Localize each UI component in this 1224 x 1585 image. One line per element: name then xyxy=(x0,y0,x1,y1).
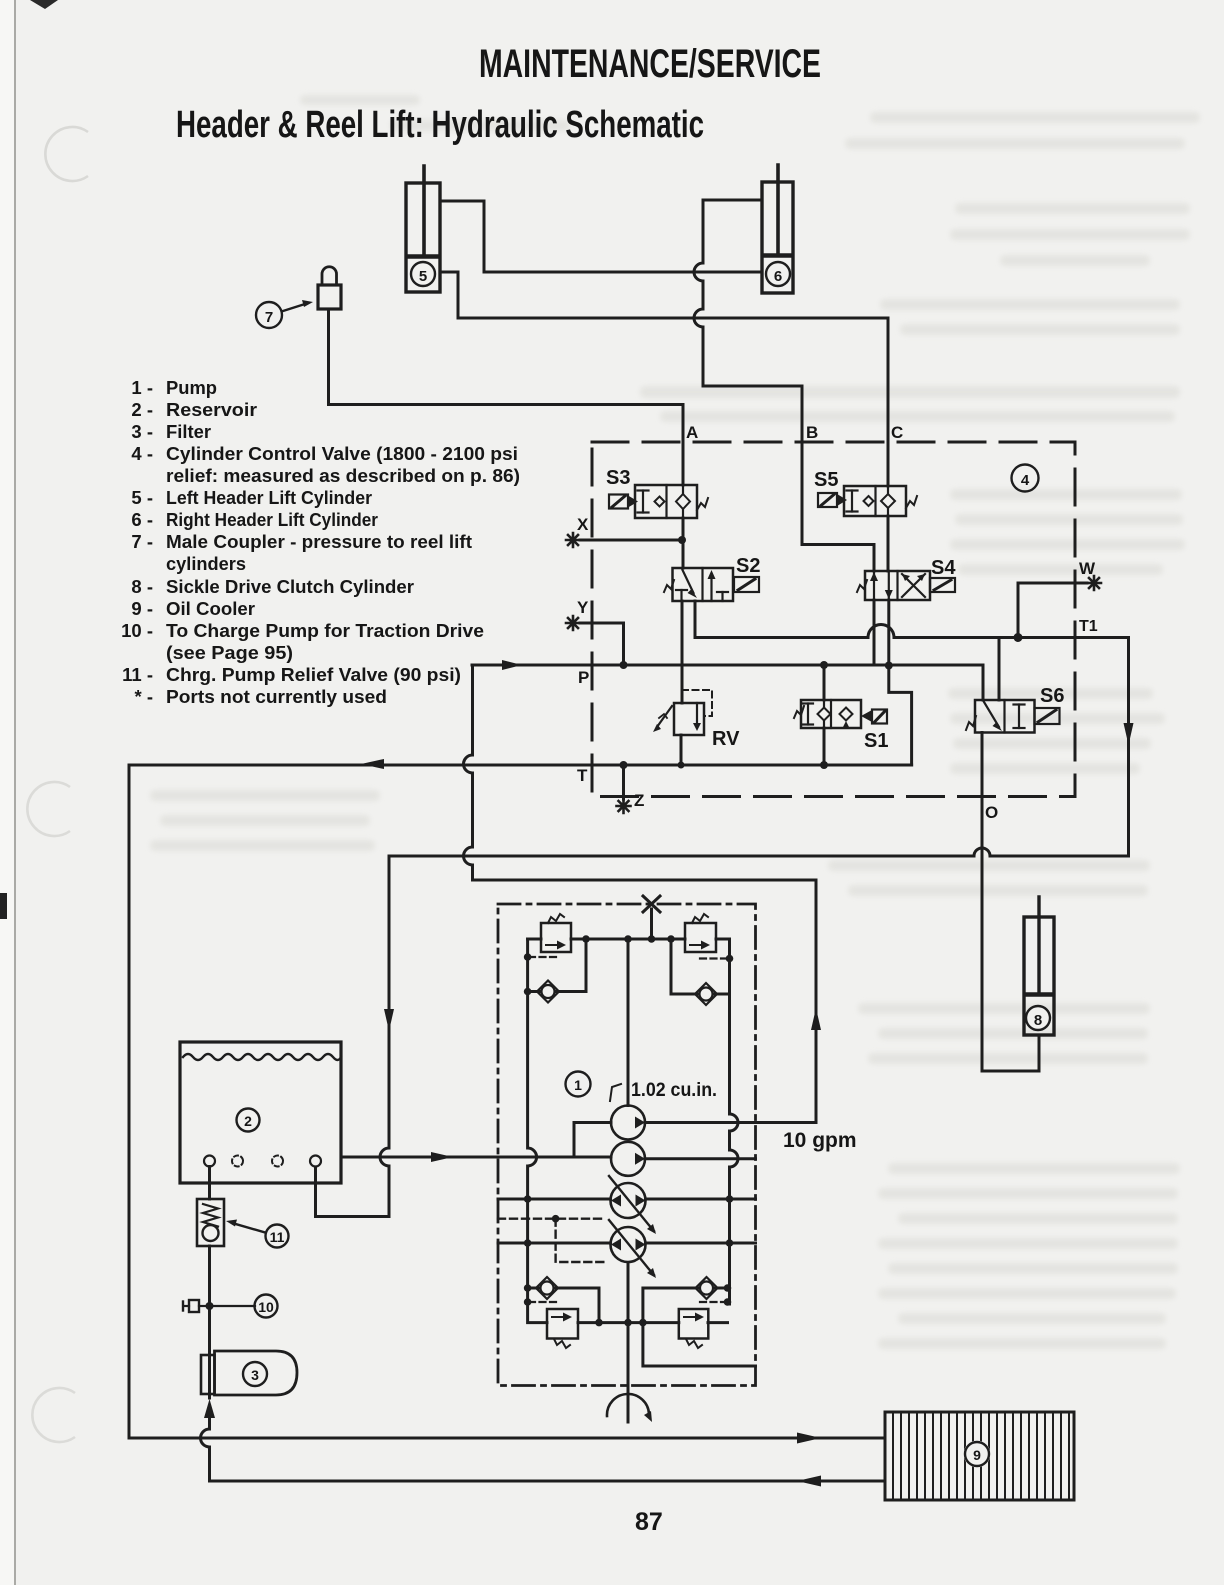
svg-text:7: 7 xyxy=(265,309,273,326)
pump label 1 and displacement xyxy=(566,1072,718,1102)
bottom relief row xyxy=(578,1321,728,1324)
svg-text:MAINTENANCE/SERVICE: MAINTENANCE/SERVICE xyxy=(479,42,821,86)
svg-text:Header & Reel Lift: Hydraulic: Header & Reel Lift: Hydraulic Schematic xyxy=(176,104,704,146)
wire cyl5 top port to cyl6 bottom port xyxy=(440,201,762,272)
svg-text:11 -: 11 - xyxy=(122,664,153,685)
wire C through S5 to S4 xyxy=(887,442,890,571)
wire P corner into S6 xyxy=(982,665,985,700)
pump circle 3 variable xyxy=(609,1176,656,1234)
right bus in pump box xyxy=(730,939,739,1304)
filter inlet arrow xyxy=(204,1399,215,1418)
svg-text:2 -: 2 - xyxy=(131,399,153,420)
svg-text:C: C xyxy=(891,423,903,442)
svg-text:A: A xyxy=(686,423,698,442)
svg-text:Reservoir: Reservoir xyxy=(166,399,257,420)
dashed control lines to variable pumps xyxy=(498,1219,606,1262)
subtitle xyxy=(176,104,704,146)
wire P to S1 xyxy=(823,665,826,700)
wire S4 left bottom to P xyxy=(873,600,876,665)
svg-text:1: 1 xyxy=(574,1077,582,1093)
page number 87 xyxy=(635,1508,663,1536)
relief valve square bottom-right xyxy=(679,1309,709,1348)
wire RV bottom to T row xyxy=(680,735,683,765)
pump shaft bottom and rotation arc xyxy=(607,1263,652,1422)
wire S4 right bottom to T row jog xyxy=(889,600,912,765)
svg-text:W: W xyxy=(1079,559,1096,578)
wire X to A junction xyxy=(580,539,683,542)
svg-text:S6: S6 xyxy=(1040,685,1064,707)
wire T1 branch to S6 xyxy=(998,638,1001,701)
arrow down on return wire xyxy=(384,1009,394,1031)
port W star xyxy=(1079,559,1101,590)
svg-text:Chrg. Pump Relief Valve (90 ps: Chrg. Pump Relief Valve (90 psi) xyxy=(166,664,461,685)
svg-text:T1: T1 xyxy=(1079,618,1098,635)
pump output wire up and over to P feed xyxy=(464,665,817,1123)
wire W to T1 line xyxy=(1018,583,1087,638)
port Y star xyxy=(566,598,589,630)
svg-text:S3: S3 xyxy=(606,467,630,489)
svg-text:4 -: 4 - xyxy=(131,443,153,464)
plugged port X on pump box top xyxy=(643,896,660,939)
wire Y to P line xyxy=(580,623,624,665)
svg-text:9 -: 9 - xyxy=(131,598,153,619)
wire cylinder 8 bottom port xyxy=(1038,1035,1041,1071)
svg-text:Pump: Pump xyxy=(166,377,217,398)
port Z star xyxy=(617,791,645,813)
reservoir 2 xyxy=(180,1042,341,1183)
svg-text:Z: Z xyxy=(634,791,644,810)
wire CRV to junction 10 and filter xyxy=(208,1246,211,1398)
title xyxy=(479,42,821,86)
solenoid valve S6 xyxy=(966,685,1064,733)
drain wire to right border xyxy=(643,1323,756,1366)
relief valve square top-left xyxy=(541,914,571,952)
wire S1 to T row xyxy=(823,728,826,765)
svg-text:X: X xyxy=(577,515,589,534)
solenoid valve S5 xyxy=(814,469,917,516)
svg-text:2: 2 xyxy=(244,1113,252,1129)
oil cooler 9 xyxy=(885,1412,1074,1500)
relief valve square bottom-left xyxy=(547,1309,578,1348)
pump P3 lines xyxy=(498,1198,756,1201)
T row arrow left xyxy=(361,759,384,769)
svg-text:Y: Y xyxy=(577,598,589,617)
svg-text:8 -: 8 - xyxy=(131,576,153,597)
svg-text:8: 8 xyxy=(1034,1012,1042,1029)
svg-text:S5: S5 xyxy=(814,469,838,491)
port X star xyxy=(566,515,589,547)
wire S6 bottom to O and cylinder 8 xyxy=(982,733,1039,1072)
svg-text:Cylinder Control Valve (1800 -: Cylinder Control Valve (1800 - 2100 psi xyxy=(166,443,518,464)
wire T1 corner down right side to 856 line xyxy=(389,638,1129,857)
left bus in pump box xyxy=(528,939,547,1323)
svg-text:3: 3 xyxy=(251,1367,259,1383)
pump dash-dot box xyxy=(498,904,756,1386)
wire B jog into S4 xyxy=(802,442,874,571)
arrow down on right loop xyxy=(1124,723,1134,745)
charge pump relief valve 11 xyxy=(197,1199,289,1248)
svg-text:S1: S1 xyxy=(864,730,888,752)
svg-text:Oil Cooler: Oil Cooler xyxy=(166,598,255,619)
svg-text:1 -: 1 - xyxy=(131,377,153,398)
top-right check valve xyxy=(671,939,730,1005)
male coupler 7 xyxy=(256,267,341,328)
pump circle 4 variable xyxy=(609,1220,656,1278)
bottom-right check valve xyxy=(643,1277,728,1323)
wire A through S3 to S2 xyxy=(682,518,685,568)
svg-text:Male Coupler - pressure to ree: Male Coupler - pressure to reel lift xyxy=(166,531,472,552)
return wire down to reservoir port 4 xyxy=(316,856,390,1217)
wire S2 to RV xyxy=(681,601,684,703)
wire cyl5 bottom port to port C xyxy=(440,272,888,442)
pump P2 output to border xyxy=(645,1157,756,1160)
suction arrow xyxy=(431,1152,453,1162)
bottom-left check valve xyxy=(528,1277,599,1323)
relief valve square top-right xyxy=(685,914,716,952)
cooler return arrow xyxy=(797,1476,821,1487)
top relief row xyxy=(528,938,730,941)
svg-text:87: 87 xyxy=(635,1508,663,1536)
pump circle 2 xyxy=(611,1142,645,1176)
arrow up on pump output xyxy=(811,1008,821,1030)
svg-text:11: 11 xyxy=(270,1229,285,1245)
svg-text:(see Page 95): (see Page 95) xyxy=(166,642,293,663)
legend list xyxy=(121,377,520,707)
svg-text:relief: measured as described: relief: measured as described on p. 86) xyxy=(166,465,520,486)
wire filter inlet from cooler return xyxy=(201,1417,886,1481)
svg-text:B: B xyxy=(806,423,818,442)
pump inlet wire from suction to circle1 xyxy=(574,1123,611,1158)
svg-text:10 gpm: 10 gpm xyxy=(783,1129,857,1152)
svg-text:S4: S4 xyxy=(931,557,956,579)
wire coupler to port A xyxy=(329,309,684,485)
svg-text:3 -: 3 - xyxy=(131,421,153,442)
top-left check valve xyxy=(528,939,586,1003)
T row line xyxy=(129,765,912,1438)
cylinder control valve dashed box 4 xyxy=(592,442,1075,797)
svg-text:1.02 cu.in.: 1.02 cu.in. xyxy=(631,1080,717,1101)
svg-text:Sickle Drive Clutch Cylinder: Sickle Drive Clutch Cylinder xyxy=(166,576,414,597)
left header lift cylinder 5 xyxy=(406,166,440,292)
relief valve RV xyxy=(653,690,740,750)
suction line from reservoir xyxy=(341,1156,611,1159)
solenoid valve S3 xyxy=(606,467,708,518)
svg-text:10 -: 10 - xyxy=(121,620,153,641)
svg-text:RV: RV xyxy=(712,728,740,750)
wire reservoir port1 down to CRV 11 xyxy=(208,1167,211,1200)
svg-text:5: 5 xyxy=(419,268,427,285)
svg-text:7 -: 7 - xyxy=(131,531,153,552)
svg-text:* -: * - xyxy=(135,686,154,707)
dashed pilot rows bottom xyxy=(529,1301,557,1303)
svg-text:Left Header Lift Cylinder: Left Header Lift Cylinder xyxy=(166,487,372,508)
right header lift cylinder 6 xyxy=(762,165,793,293)
svg-text:4: 4 xyxy=(1021,472,1030,489)
P line xyxy=(472,664,983,667)
svg-text:6 -: 6 - xyxy=(131,509,153,530)
svg-text:Filter: Filter xyxy=(166,421,211,442)
pump shaft wire top xyxy=(627,939,630,1106)
solenoid valve S1 xyxy=(794,700,888,752)
svg-text:O: O xyxy=(985,803,998,822)
svg-text:To Charge Pump for Traction Dr: To Charge Pump for Traction Drive xyxy=(166,620,484,641)
svg-text:Ports not currently used: Ports not currently used xyxy=(166,686,387,707)
filter 3 xyxy=(201,1351,297,1395)
dashed pilot rows top xyxy=(529,956,557,958)
P arrow xyxy=(502,660,522,670)
solenoid valve S2 xyxy=(664,555,760,601)
wire Z branch xyxy=(622,765,625,799)
wire S2 to T1 line xyxy=(695,601,1129,638)
wire cyl6 top port to port B with hops xyxy=(694,200,802,442)
svg-text:P: P xyxy=(578,668,589,687)
pump P4 lines xyxy=(498,1242,756,1245)
svg-text:9: 9 xyxy=(973,1447,981,1463)
pump circle 1 xyxy=(611,1106,645,1140)
sickle drive clutch cylinder 8 xyxy=(1024,897,1054,1035)
cooler feed arrow xyxy=(797,1433,821,1444)
svg-text:5 -: 5 - xyxy=(131,487,153,508)
svg-text:Right Header Lift Cylinder: Right Header Lift Cylinder xyxy=(166,509,378,530)
svg-text:10: 10 xyxy=(258,1299,274,1315)
svg-text:cylinders: cylinders xyxy=(166,553,246,574)
solenoid valve S4 xyxy=(857,557,956,600)
svg-text:S2: S2 xyxy=(736,555,760,577)
svg-text:6: 6 xyxy=(774,268,782,285)
svg-text:T: T xyxy=(577,766,588,785)
charge pump tap 10 xyxy=(183,1295,278,1318)
